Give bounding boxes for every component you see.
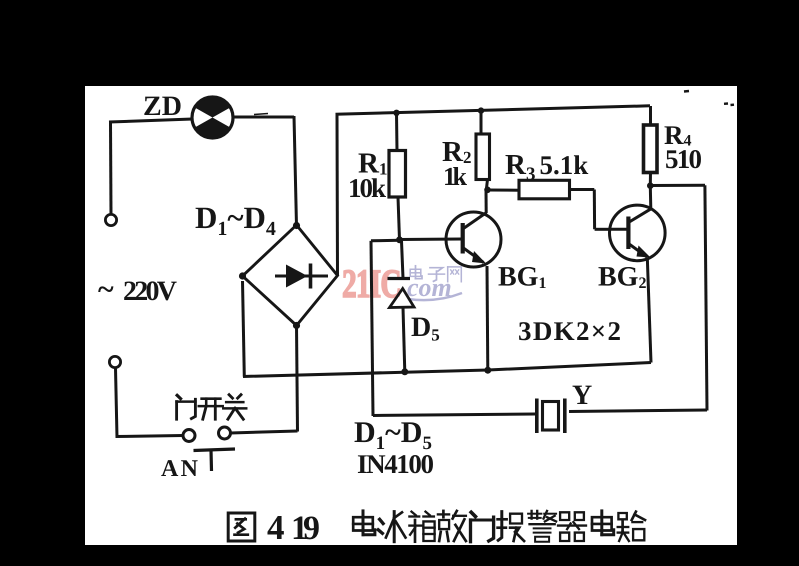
- resistor R3: [519, 180, 610, 229]
- svg-text:10k: 10k: [348, 173, 386, 203]
- svg-text:AN: AN: [161, 456, 199, 482]
- wire: [371, 240, 535, 416]
- white scan area: [85, 86, 737, 545]
- wire: [233, 114, 297, 227]
- bridge rectifier D1~D4: [239, 222, 338, 329]
- svg-text:IN4100: IN4100: [357, 449, 435, 479]
- svg-text:D1~D4: D1~D4: [195, 200, 276, 240]
- svg-text:1k: 1k: [443, 162, 468, 191]
- wire: [569, 185, 707, 411]
- node R1 top: [393, 110, 399, 116]
- transistor BG2: [610, 186, 666, 363]
- wire: [684, 91, 734, 105]
- svg-text:9: 9: [303, 510, 320, 547]
- wire: [116, 368, 184, 438]
- wire emitter rail: [243, 281, 652, 377]
- AC terminal upper: [105, 214, 116, 225]
- resistor R1: [389, 113, 406, 240]
- svg-text:3DK2×2: 3DK2×2: [518, 316, 621, 346]
- caption 图4.19 电冰箱敞门报警器电路: [228, 508, 645, 547]
- svg-text:~: ~: [98, 273, 114, 306]
- node BG1 emitter-rail: [484, 367, 491, 374]
- wire: [486, 189, 520, 192]
- diode D5: [388, 241, 415, 372]
- node D5 emitter-rail: [401, 368, 408, 375]
- wire: [231, 325, 298, 433]
- svg-text:4: 4: [267, 508, 285, 547]
- transistor BG1: [446, 190, 501, 371]
- svg-text:220V: 220V: [123, 276, 177, 307]
- resistor R4: [644, 106, 658, 186]
- watermark 电子网: [410, 266, 461, 282]
- svg-text:Y: Y: [572, 380, 592, 411]
- AC terminal lower: [109, 356, 120, 367]
- label 门开关: [177, 395, 247, 420]
- node BG1 collector: [484, 187, 491, 194]
- wire: [400, 238, 462, 242]
- buzzer Y: [537, 399, 565, 434]
- node BG1 base: [396, 236, 403, 243]
- node R2 top: [478, 107, 484, 113]
- svg-text:R35.1k: R35.1k: [505, 149, 588, 185]
- resistor R2: [476, 111, 490, 190]
- wire: [336, 106, 651, 276]
- door switch AN: [183, 427, 235, 471]
- wire: [109, 119, 193, 215]
- svg-text:ZD: ZD: [143, 91, 182, 122]
- svg-text:510: 510: [665, 144, 702, 174]
- lamp ZD: [191, 96, 235, 140]
- node BG2 collector: [647, 182, 654, 189]
